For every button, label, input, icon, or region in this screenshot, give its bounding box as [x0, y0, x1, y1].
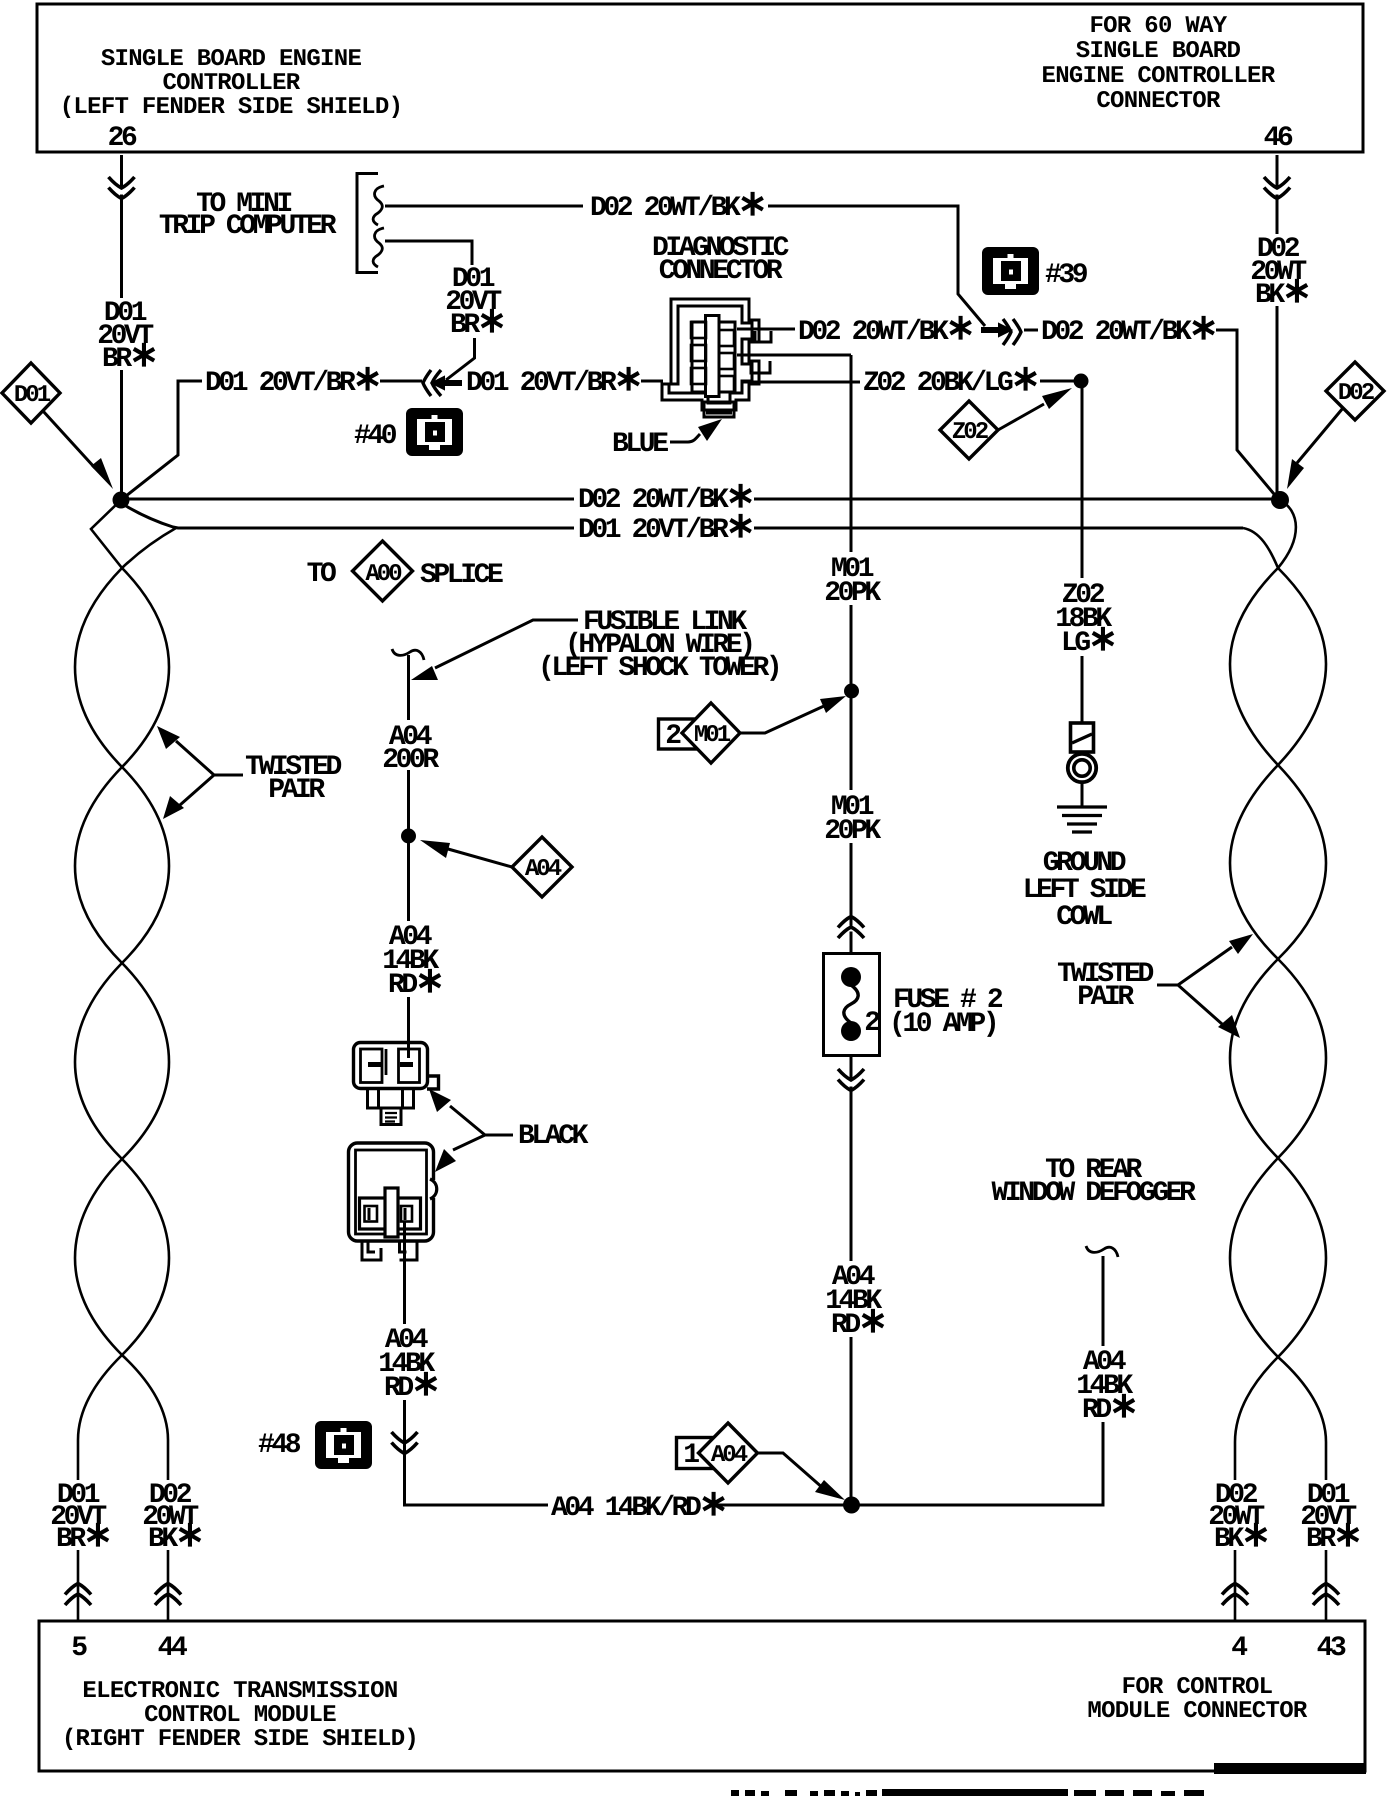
label A04 14BK RD* (fuse branch) — [820, 1261, 885, 1343]
chevrons on A04 wire — [399, 1444, 410, 1450]
label D01 20VT BR* (pin43) — [1298, 1480, 1360, 1557]
wire from label down to inline connector 40 — [446, 338, 475, 380]
TO A00 SPLICE row — [307, 541, 503, 601]
junction dot right — [1271, 491, 1289, 509]
connector C1 black 2-way — [354, 1043, 439, 1125]
wire stub label to chevrons — [380, 380, 422, 383]
label D01 20VT BR* (pin26 wire) — [96, 298, 156, 377]
svg-text:43: 43 — [1317, 1633, 1346, 1664]
svg-text:A04 14BK/RD∗: A04 14BK/RD∗ — [551, 1485, 725, 1526]
svg-text:CONNECTOR: CONNECTOR — [659, 256, 783, 287]
label A04 14BK RD* (below connector) — [373, 1324, 438, 1406]
bottom clipped caption row — [731, 1789, 1204, 1796]
inline connector chevrons on pin26 wire — [116, 189, 127, 195]
A04 diamond — [512, 837, 572, 897]
junction dot M01 — [844, 684, 859, 699]
svg-text:D01 20VT/BR∗: D01 20VT/BR∗ — [466, 360, 640, 401]
wire dot to defogger branch — [858, 1256, 1103, 1505]
ground symbol — [1057, 807, 1107, 832]
right twisted pair strand B — [1230, 528, 1326, 1621]
label D02 20WT BK* (pin44) — [140, 1480, 202, 1557]
arrow M01 pointer to dot — [740, 706, 824, 733]
arrow A04 pointer to bottom dot — [758, 1453, 825, 1489]
wire Z02 down to ground — [1081, 388, 1084, 722]
FUSIBLE LINK label — [538, 607, 779, 684]
svg-text:A00: A00 — [365, 561, 402, 588]
pin wire middle (M01) — [737, 355, 851, 373]
1 A04 pointer — [677, 1423, 758, 1483]
node dot Z02 — [1074, 374, 1089, 389]
ground eyelet terminal — [1068, 723, 1096, 806]
label M01 20PK (lower) — [820, 790, 882, 847]
diagnostic connector title — [652, 233, 790, 287]
TO REAR WINDOW DEFOGGER label — [991, 1155, 1196, 1209]
svg-text:20PK: 20PK — [824, 578, 881, 609]
connector C2 black 4-way — [349, 1143, 434, 1260]
wire below connector C2 — [403, 1221, 406, 1505]
svg-text:#39: #39 — [1045, 260, 1088, 291]
svg-text:(RIGHT FENDER SIDE SHIELD): (RIGHT FENDER SIDE SHIELD) — [62, 1726, 418, 1753]
wire D01 from pin 26 — [120, 155, 123, 492]
right twisted pair pointer lines — [1157, 947, 1232, 1024]
wire D02 to top row — [385, 205, 583, 208]
svg-text:(LEFT FENDER SIDE SHIELD): (LEFT FENDER SIDE SHIELD) — [60, 94, 403, 121]
svg-text:44: 44 — [158, 1633, 187, 1664]
BLUE arrowhead — [698, 419, 722, 441]
svg-text:FOR CONTROL: FOR CONTROL — [1122, 1674, 1273, 1701]
svg-text:CONTROL MODULE: CONTROL MODULE — [144, 1702, 336, 1729]
label D02 20WT BK* (pin4) — [1206, 1480, 1268, 1557]
TWISTED PAIR label right — [1057, 959, 1153, 1013]
label D02 20WT/BK* (long row) — [574, 477, 754, 518]
BLACK pointer lines — [450, 1106, 513, 1150]
label D01 20VT BR* (trip computer wire) — [445, 264, 504, 343]
svg-text:M01: M01 — [694, 722, 731, 749]
svg-text:A04: A04 — [711, 1442, 748, 1469]
svg-text:(LEFT SHOCK TOWER): (LEFT SHOCK TOWER) — [538, 653, 779, 684]
bottom connector box: Electronic Transmission Control Module — [39, 1621, 1366, 1774]
svg-text:ELECTRONIC TRANSMISSION: ELECTRONIC TRANSMISSION — [82, 1678, 397, 1705]
arrow Z02 diamond to dot — [998, 404, 1044, 430]
svg-text:WINDOW DEFOGGER: WINDOW DEFOGGER — [991, 1178, 1196, 1209]
wire from top label to inline connector 39 — [768, 206, 985, 326]
svg-text:A04: A04 — [525, 856, 562, 883]
wire from D01 label to splice dot — [126, 381, 202, 496]
svg-text:D02 20WT/BK∗: D02 20WT/BK∗ — [590, 185, 764, 226]
label Z02 18BK LG* — [1052, 578, 1115, 661]
junction dot A04 bottom — [843, 1497, 860, 1514]
D01 diamond top left — [2, 363, 60, 423]
svg-text:D02 20WT/BK∗: D02 20WT/BK∗ — [1041, 309, 1215, 350]
#39 splice icon — [982, 247, 1039, 295]
wire A04 fusible link down — [407, 655, 410, 1058]
arrow A04 diamond to dot — [448, 849, 512, 867]
pin wire bottom (Z02) — [742, 381, 860, 384]
svg-text:FOR 60 WAY: FOR 60 WAY — [1089, 13, 1227, 40]
TO MINI TRIP COMPUTER label — [159, 189, 337, 242]
svg-text:(10 AMP): (10 AMP) — [889, 1009, 996, 1040]
svg-text:COWL: COWL — [1056, 902, 1112, 933]
wire from label to right junction — [1216, 330, 1274, 494]
svg-text:D01 20VT/BR∗: D01 20VT/BR∗ — [205, 360, 379, 401]
wire from label to diagnostic connector — [641, 380, 663, 383]
svg-text:SPLICE: SPLICE — [420, 560, 503, 591]
splice junction dot left — [113, 492, 130, 509]
trip computer hook 1 — [373, 186, 384, 225]
#40 splice icon — [406, 408, 463, 456]
Z02 diamond — [940, 401, 998, 459]
left twisted pair strand B — [75, 528, 176, 1621]
right twisted pair strand A — [1230, 500, 1326, 1621]
inline connector #40 chevrons << — [423, 370, 441, 396]
defogger fusible hook — [1086, 1246, 1118, 1257]
2 M01 pointer — [659, 703, 741, 763]
arrow D02 diamond to right junction dot — [1297, 408, 1343, 463]
label A04 14BK RD* (defogger branch) — [1071, 1346, 1136, 1428]
trip computer bracket — [357, 174, 378, 273]
svg-text:TRIP COMPUTER: TRIP COMPUTER — [159, 211, 337, 242]
pin wire top to D02 label — [737, 329, 795, 342]
svg-text:PAIR: PAIR — [268, 775, 325, 806]
fusible link pointer — [435, 620, 578, 668]
svg-text:TO: TO — [307, 559, 336, 590]
arrow D01 diamond to splice dot — [43, 411, 95, 468]
fusible link hook — [392, 649, 424, 660]
left twisted pair pointer lines — [176, 741, 243, 805]
svg-text:SINGLE BOARD ENGINE: SINGLE BOARD ENGINE — [101, 46, 362, 73]
svg-text:ENGINE CONTROLLER: ENGINE CONTROLLER — [1042, 63, 1276, 90]
svg-text:4: 4 — [1231, 1633, 1247, 1664]
inline connector #40 arrow (pointing left) — [432, 377, 461, 389]
svg-text:SINGLE BOARD: SINGLE BOARD — [1076, 38, 1241, 65]
wire D01 from trip computer hook2 — [385, 241, 472, 265]
label D01 20VT BR* (pin5) — [48, 1480, 110, 1557]
chevrons above fuse — [846, 926, 857, 932]
wire stub chevrons to right label — [1024, 329, 1038, 332]
FUSE # 2 (10 AMP) label — [889, 985, 1003, 1040]
wire D02 from pin 46 — [1276, 155, 1279, 493]
chevrons at bottom pins — [65, 1584, 91, 1606]
trip computer hook 2 — [373, 228, 384, 267]
junction dot A04 — [401, 829, 416, 844]
svg-text:BLUE: BLUE — [612, 429, 668, 460]
diagnostic connector body — [662, 299, 759, 417]
label A04 14BK RD* (above connector) — [377, 921, 442, 1003]
svg-text:CONTROLLER: CONTROLLER — [162, 70, 300, 97]
BLUE pointer line — [670, 434, 700, 442]
bottom tab of connector — [704, 402, 734, 417]
svg-text:20PK: 20PK — [824, 816, 881, 847]
svg-text:Z02 20BK/LG∗: Z02 20BK/LG∗ — [863, 360, 1037, 401]
svg-text:26: 26 — [108, 123, 137, 154]
svg-text:46: 46 — [1264, 123, 1293, 154]
svg-text:#40: #40 — [354, 421, 397, 452]
svg-text:D02 20WT/BK∗: D02 20WT/BK∗ — [798, 309, 972, 350]
wire label to Z02 node dot — [1040, 380, 1075, 383]
M01 wire from diagnostic connector — [850, 355, 853, 1505]
label D02 20WT BK* (pin46 wire) — [1249, 234, 1309, 313]
svg-text:D02: D02 — [1338, 380, 1374, 407]
svg-text:MODULE CONNECTOR: MODULE CONNECTOR — [1087, 1698, 1308, 1725]
label A04 200R — [377, 720, 441, 776]
svg-text:Z02: Z02 — [952, 419, 988, 446]
D02 diamond top right — [1326, 362, 1384, 420]
svg-text:PAIR: PAIR — [1077, 982, 1134, 1013]
ground label — [1023, 848, 1146, 933]
svg-text:CONNECTOR: CONNECTOR — [1096, 88, 1221, 115]
inline connector #39 chevrons >> — [1003, 319, 1021, 345]
left twisted pair strand A — [75, 500, 169, 1621]
inline connector #39 arrow (pointing right) — [982, 324, 1011, 336]
long wire D02 20WT/BK* row — [128, 498, 1272, 501]
long wire D01 20VT/BR* row — [126, 506, 1243, 528]
wire #48 elbow to dot — [405, 1440, 549, 1505]
svg-text:D01: D01 — [14, 382, 51, 409]
#48 splice icon — [315, 1421, 372, 1469]
svg-text:200R: 200R — [382, 745, 439, 776]
label M01 20PK (upper) — [820, 552, 882, 609]
wire label to dot — [716, 1504, 845, 1507]
connector C2 right notch — [429, 1180, 436, 1198]
fuse #2 — [824, 954, 881, 1056]
svg-text:BLACK: BLACK — [518, 1121, 589, 1152]
chevrons below fuse — [846, 1081, 857, 1087]
TWISTED PAIR label left — [245, 752, 341, 806]
svg-text:5: 5 — [71, 1633, 87, 1664]
label D01 20VT/BR* (long row) — [574, 507, 754, 548]
svg-text:#48: #48 — [258, 1430, 301, 1461]
top connector box: Single Board Engine Controller — [37, 4, 1363, 154]
